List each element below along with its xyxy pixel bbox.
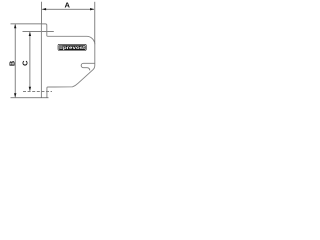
arrow C bottom <box>29 87 31 91</box>
arrow B bottom <box>14 93 16 97</box>
hose hook <box>81 63 95 70</box>
arrow C top <box>29 32 31 36</box>
dashed centerline bottom (C) <box>23 90 52 92</box>
extension line top (C) <box>23 30 54 32</box>
baseline bottom (B) <box>11 97 49 99</box>
svg-text:B: B <box>7 61 16 66</box>
dimension A line <box>42 8 94 10</box>
extension line right (A) <box>94 2 96 45</box>
wire <box>11 2 95 98</box>
extension line top (B) <box>11 23 42 25</box>
svg-text:C: C <box>21 60 30 66</box>
arrow A left <box>42 8 46 10</box>
prevost logo plate <box>58 44 86 50</box>
dimension B line <box>14 24 16 97</box>
logo icon square <box>60 46 62 49</box>
arrow A right <box>90 8 94 10</box>
dimension C line <box>29 32 31 91</box>
svg-text:prevost: prevost <box>63 45 86 51</box>
arrowheads <box>14 8 94 97</box>
arrow B top <box>14 24 16 28</box>
bracket body outline <box>41 24 94 98</box>
svg-text:A: A <box>64 1 70 10</box>
extension line left (A) <box>40 2 42 24</box>
